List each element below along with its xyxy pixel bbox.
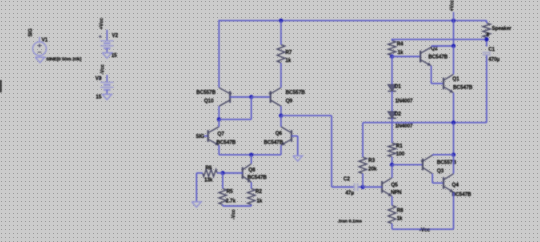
label R5 [226,189,233,195]
value 1k of R2 [257,199,263,205]
wire Q4 emitter down [453,192,455,229]
value 1k of R7 [285,58,291,64]
value 15 for V2 [111,53,117,59]
svg-text:V3: V3 [95,76,101,82]
wire Q3 collector to Q4 base [432,174,443,183]
resistor R3 [359,157,367,173]
capacitor C1 [483,53,491,55]
svg-text:BC547B: BC547B [428,55,448,61]
svg-text:15: 15 [96,94,102,100]
wire mirror diode link vertical [250,97,252,119]
plus mark V3 [99,77,102,80]
label Q2 [431,46,438,52]
capacitor C2 [355,183,358,191]
value 13k of R6 [204,177,213,183]
label Q5 [391,183,398,189]
svg-text:R8: R8 [397,208,404,214]
svg-text:C2: C2 [343,177,350,183]
wire Q4 collector up [453,155,455,174]
ground under V2 [102,53,112,58]
wire Q9 collector drop [280,106,282,115]
battery V3 [100,82,113,90]
node output junction [451,121,455,125]
node R1/Q5/Q3 junction [390,163,394,167]
wire Q8 collector up [250,155,252,164]
wire D1 to D2 [391,91,393,111]
wire Q2 emitter to Q1 base [431,66,443,84]
wire Q8 base lead [223,172,243,174]
label BC557B of Q3 [437,160,457,166]
transistor Q2 BC547B [420,47,431,66]
svg-text:Q7: Q7 [217,132,224,138]
svg-text:-Vcc: -Vcc [100,64,106,74]
value 1k of R8 [397,216,403,222]
svg-text:1N4007: 1N4007 [395,99,413,105]
label C1 [488,47,495,53]
svg-text:.tran 0.1ms: .tran 0.1ms [338,218,363,224]
wire R1 bottom lead [391,157,393,165]
node speaker/C1/bootstrap junction [485,37,489,41]
label V2 [112,33,118,39]
label V3 [95,76,101,82]
node R4 bottom junction [390,54,394,58]
wire C2 to Q5 base node [358,186,363,188]
net label +Vcc top [449,0,455,11]
wire C1 bottom to output [486,55,488,122]
wire Q2 collector to +Vcc node [431,45,453,47]
svg-text:NPN: NPN [391,190,402,196]
svg-text:Q3: Q3 [437,168,444,174]
plus mark V2 [99,35,102,38]
net label -Vcc bottom [419,228,430,234]
wire R4 top corner [391,39,393,41]
transistor Q1 BC547B [444,74,454,93]
value 1N4007 of D1 [395,99,413,105]
svg-text:SIG: SIG [28,28,34,37]
net label +Vcc at V2 [99,18,105,30]
wire R8 bottom lead [391,224,393,230]
svg-text:V1: V1 [42,38,48,44]
label BC547B of Q1 [453,85,473,91]
label Q3 [437,168,444,174]
ground at R6 [192,202,202,207]
svg-text:R5: R5 [226,189,233,195]
svg-text:Q1: Q1 [452,76,459,82]
svg-text:R1: R1 [396,144,403,150]
svg-text:13k: 13k [204,177,213,183]
label Q1 [452,76,459,82]
wire Q9 emitter up to R7 [280,63,282,88]
label NPN of Q5 [391,190,402,196]
svg-text:1k: 1k [397,216,403,222]
transistor Q4 BC547B [444,174,454,193]
svg-text:-Vcc: -Vcc [231,209,237,219]
wire bootstrap horizontal [392,38,487,40]
label Q10 [204,99,214,105]
svg-text:V2: V2 [112,33,118,39]
node Q5 base junction [361,185,365,189]
svg-text:Q10: Q10 [204,99,214,105]
svg-text:D2: D2 [395,111,402,117]
value 2.7k of R5 [226,199,236,205]
value 470µ of C1 [488,57,499,63]
svg-text:R7: R7 [285,50,292,56]
svg-text:1k: 1k [285,58,291,64]
wire +Vcc drop [453,21,455,46]
wire Q5 collector up [391,165,393,178]
screen edge artifact [0,80,2,92]
svg-text:Q6: Q6 [275,131,282,137]
label Q8 [248,168,255,174]
value 47µ of C2 [345,190,354,196]
label R1 [396,144,403,150]
svg-text:+Vcc: +Vcc [449,0,455,11]
label BC547B of Q7 [216,140,236,146]
wire Q5 base lead [363,186,382,188]
wire R4 to Q2 base [392,56,420,58]
label Q7 [217,132,224,138]
wire R3 bottom lead [362,174,364,187]
wire R5 top lead [222,173,224,189]
wire mirror diode link horizontal [219,118,251,120]
value 1k of R4 [398,50,404,56]
transistor Q8 BC547B [243,164,252,183]
wire R4 to D1 [391,55,393,84]
value 1N4007 of D2 [395,124,413,130]
svg-text:+Vcc: +Vcc [99,18,105,30]
svg-text:SIG: SIG [196,134,205,140]
svg-text:BC557B: BC557B [196,90,216,96]
transistor Q7 BC547B [208,127,219,146]
wire Q6 emitter down [280,145,282,155]
svg-text:BC547B: BC547B [247,175,267,181]
node mirror bases [249,95,253,99]
svg-text:100: 100 [396,152,405,158]
node junction rail/R7 [279,19,283,23]
ground under V1 [35,57,45,62]
wire R7 top lead [280,21,282,45]
svg-text:BC547B: BC547B [453,85,473,91]
voltage source V1 circle [33,37,47,58]
resistor R4 [388,41,396,56]
speaker 8 ohm [483,23,491,37]
svg-text:BC547B: BC547B [452,192,472,198]
wire Q1 collector up [453,46,455,74]
wire diff pair tail [219,154,281,156]
value 20k of R3 [368,167,377,173]
resistor R5 [219,189,227,205]
svg-text:R2: R2 [255,189,262,195]
wire Q1 emitter down [453,93,455,123]
value 8 of speaker [486,33,489,39]
label BC557B of Q10 [196,90,216,96]
label Q6 [275,131,282,137]
label Q9 [286,98,293,104]
net label SIG at V1 [28,28,34,37]
wire Q8 emitter down [250,182,252,188]
label R2 [255,189,262,195]
wire V2 top stub [106,30,108,41]
svg-text:1k: 1k [398,50,404,56]
wire mirror output to corner [281,115,332,117]
value SINE(0 50m 20k) [46,56,82,62]
svg-text:-Vcc: -Vcc [419,228,430,234]
diode D1 1N4007 [388,85,396,92]
wire R6 right lead [217,172,223,174]
wire Q9 base to center [251,96,270,98]
wire Q7 emitter down [218,145,220,155]
resistor R1 [388,143,396,157]
net label SIG at Q7 base [196,134,205,140]
label C2 [343,177,350,183]
wire output node horizontal [363,122,487,124]
wire +Vcc top rail [219,20,487,22]
wire rail left drop to Q10 emitter [218,20,220,88]
value 100 of R1 [396,152,405,158]
label Q4 [452,183,459,189]
wire Q3 emitter link [432,155,453,156]
net label -Vcc at V3 [100,64,106,74]
label BC547B of Q6 [264,140,284,146]
node Q3 emitter junction [451,153,455,157]
svg-text:Speaker: Speaker [492,26,512,32]
svg-text:20k: 20k [368,167,377,173]
wire corner down [331,116,333,187]
wire D2 to R1 [391,118,393,143]
svg-text:Q5: Q5 [391,183,398,189]
label D2 [395,111,402,117]
transistor Q10 BC557B [219,88,232,107]
wire corner to C2 [332,186,355,188]
wire Q6 base stub [292,136,298,156]
node Q10 collector junction [217,117,221,121]
svg-text:BC547B: BC547B [216,140,236,146]
label R7 [285,50,292,56]
ground under V3 [102,94,112,99]
resistor R8 [388,205,396,223]
wire V3 bottom stub [106,90,108,95]
label BC557B of Q9 [286,90,306,96]
wire V3 top stub [106,75,108,82]
label R3 [368,158,375,164]
label BC547B of Q8 [247,175,267,181]
wire -Vcc mid rail [223,205,252,206]
svg-text:R6: R6 [205,165,212,171]
label BC547B of Q4 [452,192,472,198]
svg-text:2.7k: 2.7k [226,199,236,205]
directive .tran 0.1ms [338,218,363,224]
svg-text:1N4007: 1N4007 [395,124,413,130]
wire output down to Q3/Q4 [453,123,455,155]
svg-text:Q4: Q4 [452,183,459,189]
wire speaker top lead [486,21,488,23]
transistor Q5 NPN [382,178,392,197]
wire -Vcc bottom rail [392,228,454,230]
node mirror output [279,114,283,118]
node R6/R5/Q8 junction [221,171,225,175]
wire Q7 collector up [218,119,220,126]
ground at Q6 base [293,156,303,161]
wire Q10 base to center [230,96,251,98]
diode D2 1N4007 [388,112,396,119]
label D1 [395,84,402,90]
wire Q10 collector drop [218,106,220,119]
wire speaker bottom lead [486,37,488,46]
svg-text:15: 15 [111,53,117,59]
wire R6 left lead [197,173,203,202]
svg-text:Q2: Q2 [431,46,438,52]
svg-text:Q8: Q8 [248,168,255,174]
wire Q7 base lead [205,135,209,137]
node junction rail/+Vcc flag [451,19,455,23]
svg-text:47µ: 47µ [345,190,354,196]
wire +Vcc flag stub [453,12,455,21]
wire Q6 collector up [280,116,282,127]
svg-text:R3: R3 [368,158,375,164]
wire bias node to Q3 base [392,164,423,166]
value 15 for V3 [96,94,102,100]
svg-text:1k: 1k [257,199,263,205]
svg-text:C1: C1 [488,47,495,53]
net label -Vcc mid [231,209,237,219]
label Speaker [492,26,512,32]
node +Vcc/Q2/Q1 junction [451,44,455,48]
wire V2 bottom stub [106,48,108,53]
svg-text:SINE(0 50m 20k): SINE(0 50m 20k) [46,56,82,62]
wire Q5 emitter down [391,196,393,205]
svg-text:BC557B: BC557B [286,90,306,96]
svg-text:R4: R4 [397,42,404,48]
battery V2 [100,41,113,49]
transistor Q3 BC557B [421,155,433,174]
svg-text:Q9: Q9 [286,98,293,104]
svg-text:BC547B: BC547B [264,140,284,146]
transistor Q6 BC547B [281,127,292,146]
resistor R7 [277,45,285,63]
transistor Q9 BC557B [268,88,281,107]
svg-text:D1: D1 [395,84,402,90]
resistor R6 [203,169,218,176]
svg-text:470µ: 470µ [488,57,499,63]
node tail junction [249,153,253,157]
resistor R2 [248,189,256,205]
wire output corner to R3 [362,123,364,158]
label R8 [397,208,404,214]
label V1 [42,38,48,44]
label BC547B of Q2 [428,55,448,61]
label R6 [205,165,212,171]
label R4 [397,42,404,48]
